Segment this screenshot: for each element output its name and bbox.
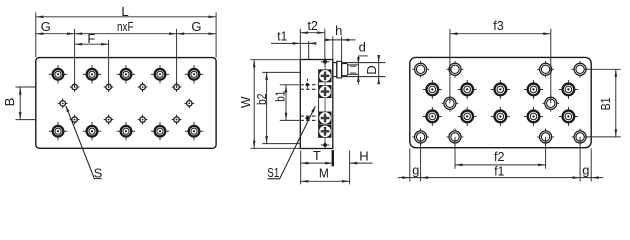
svg-text:S: S xyxy=(94,166,103,181)
hidden channel 1 (dashed) xyxy=(300,79,318,90)
right view plate outline xyxy=(410,57,591,147)
left view large port hole row1 col3 xyxy=(117,65,135,83)
dimension D xyxy=(364,55,380,84)
left view large port hole row1 col2 xyxy=(83,65,101,83)
dimension h extension lines xyxy=(333,37,342,62)
dimension T extension lines xyxy=(301,150,333,184)
dimension L xyxy=(36,4,216,19)
leader S xyxy=(65,105,102,178)
right view center hole right xyxy=(542,95,559,112)
left view plate outline xyxy=(36,58,216,149)
dimension b1 extension lines xyxy=(280,85,301,121)
svg-text:nxF: nxF xyxy=(117,19,134,34)
left view large port hole row2 col3 xyxy=(117,122,135,140)
side port boss flange xyxy=(337,61,342,78)
right view port hole row2 col5 xyxy=(559,107,578,126)
right view port hole row2 col4 xyxy=(524,107,543,126)
right view fixing hole row2 col4 xyxy=(572,129,589,146)
dimension B1 extension lines xyxy=(585,69,621,137)
left view large port hole row2 col1 xyxy=(49,122,67,140)
right view center hole left xyxy=(442,95,459,112)
svg-text:g: g xyxy=(582,163,589,178)
left view large port hole row2 col4 xyxy=(151,122,169,140)
svg-text:h: h xyxy=(335,23,342,38)
left view small hole S row1 col1 xyxy=(70,82,80,92)
dimension f2 extension lines xyxy=(455,137,546,169)
hidden channel 2 hole xyxy=(305,116,310,121)
dimension f3 extension lines xyxy=(450,29,551,104)
left view small hole S row2 col2 xyxy=(104,115,114,125)
side view mounting screw 4 xyxy=(319,125,332,138)
svg-text:f2: f2 xyxy=(494,149,505,164)
dimension t2 extension line xyxy=(324,29,326,58)
dimension f2 xyxy=(455,149,546,166)
right view fixing hole row1 col2 xyxy=(447,61,464,78)
dimension G right xyxy=(177,19,217,35)
left view small hole S row1 col3 xyxy=(138,82,148,92)
side view mounting screw 1 xyxy=(319,69,332,82)
svg-text:S1: S1 xyxy=(267,165,279,180)
dimension T xyxy=(301,148,333,165)
dimension M xyxy=(301,166,350,183)
right view fixing hole row1 col3 xyxy=(537,61,554,78)
left view large port hole row1 col4 xyxy=(151,65,169,83)
right view port hole row1 col2 xyxy=(458,80,477,99)
dimension g right xyxy=(580,163,603,179)
svg-text:t1: t1 xyxy=(277,29,287,44)
left view small hole S row2 col3 xyxy=(138,115,148,125)
left view large port hole row2 col2 xyxy=(83,122,101,140)
dimension B extension lines xyxy=(16,87,36,120)
side view top edge hole xyxy=(321,57,330,66)
side view mounting screw 2 xyxy=(319,85,332,98)
side view bottom edge hole xyxy=(321,141,330,149)
right view port hole row1 col3 xyxy=(491,80,510,99)
dimension t1 extension lines xyxy=(300,29,308,60)
left view small hole S row1 col4 xyxy=(172,82,182,92)
dimension h xyxy=(325,23,355,41)
left view large port hole row2 col5 xyxy=(185,122,203,140)
left view small hole S mid-right xyxy=(184,99,194,109)
svg-text:L: L xyxy=(121,4,128,19)
dimension t1 xyxy=(271,29,316,45)
dimension H xyxy=(350,148,373,164)
svg-text:B: B xyxy=(2,98,17,107)
dimension g right extension line xyxy=(590,149,592,182)
dimension g left xyxy=(398,163,421,179)
side view mounting screw 3 xyxy=(319,112,332,125)
right view port hole row2 col1 xyxy=(423,107,442,126)
dimension L extension lines xyxy=(36,12,216,57)
leader S1 xyxy=(268,106,317,179)
hidden channel 1 hole xyxy=(305,83,310,88)
dimension G/nxF extension lines xyxy=(75,29,177,87)
svg-text:T: T xyxy=(313,148,321,163)
right view fixing hole row2 col2 xyxy=(447,129,464,146)
dimension W extension lines xyxy=(250,60,300,149)
svg-text:F: F xyxy=(87,31,95,46)
dimension B1 xyxy=(598,69,617,137)
side port boss step xyxy=(342,64,348,76)
left view small hole S row1 col2 xyxy=(104,82,114,92)
right view fixing hole row2 col1 xyxy=(412,129,429,146)
right view port hole row1 col1 xyxy=(423,80,442,99)
svg-text:b2: b2 xyxy=(254,93,269,105)
svg-text:M: M xyxy=(319,166,329,181)
svg-text:D: D xyxy=(364,65,379,74)
svg-text:G: G xyxy=(41,19,51,34)
right view fixing hole row1 col1 xyxy=(412,61,429,78)
side port boss neck xyxy=(333,63,337,77)
svg-text:B1: B1 xyxy=(598,97,613,110)
svg-text:b1: b1 xyxy=(273,91,288,102)
dimension M extension line xyxy=(349,151,351,185)
svg-text:W: W xyxy=(238,96,253,108)
side port pipe thread lines xyxy=(348,65,359,74)
left view large port hole row1 col5 xyxy=(185,65,203,83)
label S1 xyxy=(267,165,279,180)
right view port hole row1 col5 xyxy=(559,80,578,99)
dimension f1 extension lines xyxy=(421,137,580,182)
left view small hole S mid-left xyxy=(58,99,68,109)
svg-text:t2: t2 xyxy=(307,18,318,33)
left view small hole S row2 col1 xyxy=(70,115,80,125)
right view fixing hole row1 col4 xyxy=(572,61,589,78)
side view body outline xyxy=(300,60,333,149)
dimension b1 xyxy=(273,85,288,121)
dimension d xyxy=(357,39,368,84)
label S xyxy=(94,166,103,181)
dimension nxF xyxy=(75,19,177,35)
right view port hole row1 col4 xyxy=(524,80,543,99)
side view counterbore edge line xyxy=(318,69,320,137)
svg-text:f3: f3 xyxy=(493,18,504,33)
right view port hole row2 col2 xyxy=(458,107,477,126)
left view small hole S row2 col4 xyxy=(172,115,182,125)
svg-text:g: g xyxy=(412,163,419,178)
dimension f3 xyxy=(450,18,551,35)
dimension G left xyxy=(36,19,75,35)
hidden channel 2 (dashed) xyxy=(300,116,318,120)
dimension g left extension line xyxy=(409,149,411,182)
dimension b2 xyxy=(254,72,269,143)
svg-text:G: G xyxy=(191,19,201,34)
svg-text:H: H xyxy=(359,148,368,163)
dimension f1 xyxy=(421,163,580,179)
dimension b2 extension lines xyxy=(262,72,300,143)
side view screw column centerline xyxy=(324,57,326,148)
right view port hole row2 col3 xyxy=(491,107,510,126)
side port pipe outline / D extension lines xyxy=(342,63,386,77)
svg-text:f1: f1 xyxy=(494,163,504,178)
dimension F extension line xyxy=(108,40,110,87)
dimension t2 xyxy=(300,18,325,34)
dimension B xyxy=(2,87,22,120)
dimension W xyxy=(238,60,256,149)
right view fixing hole row2 col3 xyxy=(537,129,554,146)
left view large port hole row1 col1 xyxy=(49,65,67,83)
svg-text:d: d xyxy=(359,39,366,54)
dimension F xyxy=(75,31,109,46)
